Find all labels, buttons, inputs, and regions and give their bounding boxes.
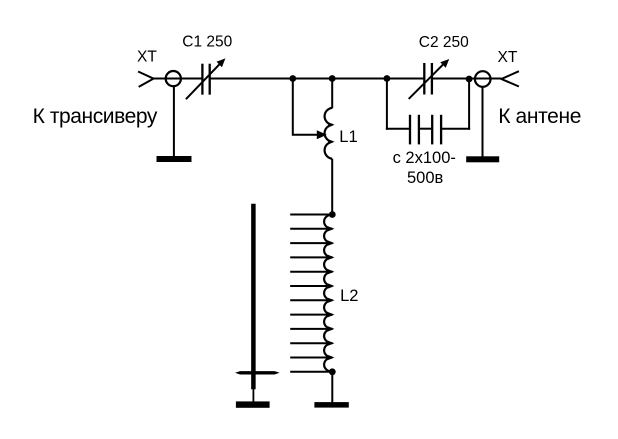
ground (under rod): [236, 401, 270, 407]
svg-text:XT: XT: [498, 49, 518, 66]
svg-text:К антене: К антене: [498, 105, 581, 128]
connector XT1 chevron: [138, 72, 153, 87]
wire main middle: [210, 78, 424, 80]
wire main right: [432, 78, 501, 80]
svg-text:C2 250: C2 250: [419, 34, 469, 51]
L1 cusp hooks: [328, 122, 334, 144]
wire XT2 to ground: [482, 87, 484, 157]
connector XT1 circle: [166, 71, 181, 86]
svg-text:с 2х100-: с 2х100-: [393, 149, 456, 167]
node L2 bottom dot: [329, 368, 336, 375]
wire branch C3 right up: [468, 79, 470, 130]
node junction dot D: [466, 76, 473, 83]
L2 tap lines: [290, 215, 332, 372]
wire between C3a and C3b: [419, 128, 432, 130]
node L2 top dot: [329, 211, 336, 218]
wire to L1 top: [331, 79, 333, 109]
connector XT2 circle: [475, 71, 491, 87]
ground (under L2): [314, 402, 348, 408]
inductor L1: [325, 108, 333, 159]
svg-text:XT: XT: [137, 49, 157, 66]
capacitor C1 variable arrow: [186, 58, 226, 99]
wire L2 to ground: [331, 372, 333, 403]
L1 tap arrowhead: [317, 130, 327, 139]
svg-text:L1: L1: [339, 128, 357, 146]
capacitor C2 plates: [424, 63, 432, 95]
ground (left): [157, 156, 192, 162]
node junction dot A: [289, 75, 296, 82]
inductor L2: [324, 215, 332, 372]
capacitor C3a plates: [410, 115, 419, 145]
svg-text:К трансиверу: К трансиверу: [33, 105, 158, 128]
wire main left: [154, 78, 202, 80]
svg-text:C1 250: C1 250: [182, 34, 232, 51]
wire branch C3 right horizontal: [441, 128, 470, 130]
wire L1 tap (down then right): [293, 79, 319, 135]
wire branch C3 left down: [386, 79, 388, 130]
slider rod: [251, 204, 256, 389]
wire XT1 to ground: [173, 86, 175, 157]
svg-text:L2: L2: [340, 287, 358, 305]
connector XT2 chevron: [501, 71, 519, 86]
slider crossbar: [235, 371, 280, 374]
ground (right): [466, 156, 499, 162]
wire rod to ground: [252, 389, 254, 402]
capacitor C1 plates: [202, 64, 209, 95]
L2 cusp hooks: [328, 226, 335, 360]
capacitor C2 variable arrow: [409, 59, 450, 99]
node junction dot C: [384, 75, 391, 82]
svg-text:500в: 500в: [407, 169, 444, 187]
wire branch C3 left horizontal: [386, 128, 410, 130]
wire L1 to L2: [331, 159, 333, 215]
capacitor C3b plates: [432, 115, 441, 145]
node junction dot B: [329, 75, 336, 82]
